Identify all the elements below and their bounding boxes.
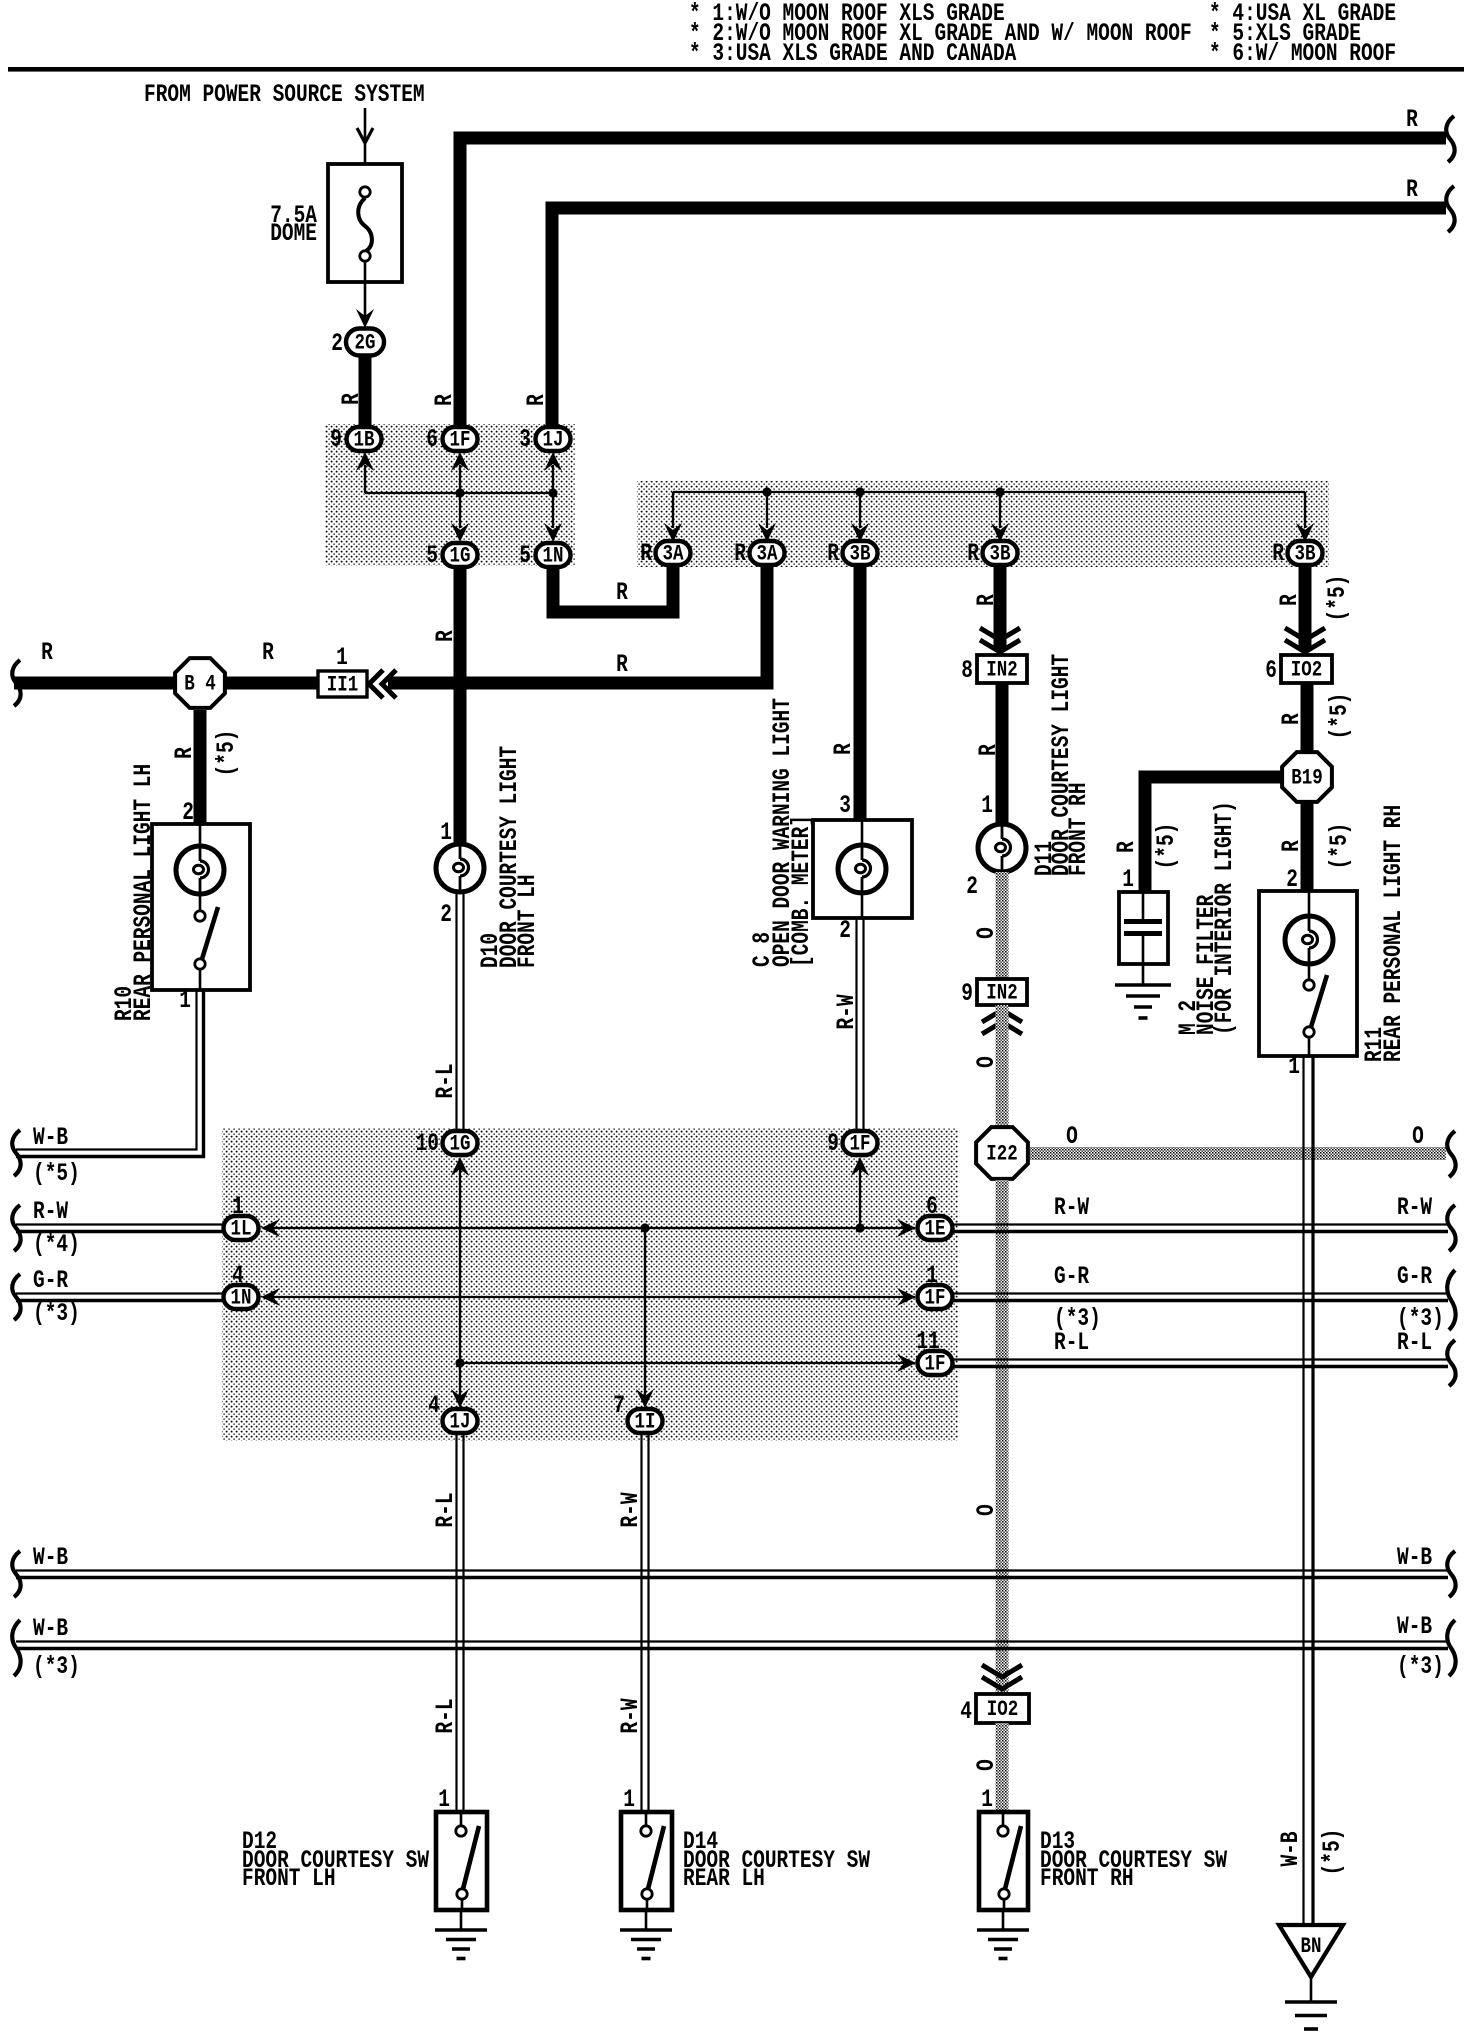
D13 pin 1 [981, 1785, 993, 1814]
svg-text:3B: 3B [1295, 542, 1316, 568]
wire R-L, D10 to 10(1G) [431, 892, 464, 1130]
connector 1J pin 4 [428, 1391, 477, 1435]
svg-text:R-L: R-L [431, 1492, 460, 1527]
label D12 DOOR COURTESY SW FRONT LH [242, 1827, 430, 1893]
svg-text:1: 1 [232, 1192, 244, 1221]
connector 1J pin 3 [519, 425, 570, 454]
svg-text:R: R [522, 394, 551, 406]
junction wire branch down to 1I [636, 1228, 654, 1408]
junction connector B19 [1282, 752, 1332, 802]
connector 1F pin 9 [827, 1129, 877, 1158]
svg-text:2G: 2G [355, 331, 376, 357]
fuse 7.5A DOME [328, 164, 402, 282]
svg-text:1: 1 [1288, 1052, 1300, 1081]
svg-text:REAR PERSONAL LIGHT RH: REAR PERSONAL LIGHT RH [1379, 805, 1408, 1062]
connector 1G pin 5 [426, 541, 477, 570]
svg-text:R: R [1277, 840, 1306, 852]
junction connector IN2 pin 9 [961, 979, 1027, 1008]
connector 1I pin 7 [613, 1391, 662, 1435]
svg-text:O: O [972, 1056, 1001, 1068]
wire W-B (*3) (lower ground bus) [16, 1612, 1448, 1681]
svg-text:1G: 1G [450, 1132, 471, 1158]
wire W-B (*5) from R10 pin 1 to left edge [16, 990, 204, 1188]
note legend column 2 [1209, 0, 1396, 68]
svg-text:R: R [1277, 713, 1306, 725]
svg-text:* 3:USA XLS GRADE AND CANADA: * 3:USA XLS GRADE AND CANADA [689, 39, 1017, 68]
svg-text:R: R [1406, 105, 1418, 134]
wire R, 2G to 1B [337, 355, 366, 426]
svg-text:R: R [1406, 175, 1418, 204]
svg-text:W-B: W-B [1397, 1543, 1432, 1572]
wire W-B (upper ground bus) [16, 1543, 1448, 1578]
ground below BN [1285, 1977, 1337, 2029]
connector 1N pin 5 [519, 541, 570, 570]
wire R-W, C8 to 9(1F) [832, 918, 864, 1130]
R10 pin 1 [179, 986, 191, 1015]
svg-text:(*5): (*5) [212, 730, 241, 777]
connector 3B (D11 feed) wire R [967, 539, 1017, 568]
wire R-L, 11(1F) to right edge [953, 1328, 1448, 1367]
junction connector I22 [976, 1127, 1028, 1179]
svg-text:FRONT RH: FRONT RH [1040, 1864, 1134, 1893]
connector 1E pin 6 [918, 1192, 953, 1242]
svg-text:R-W: R-W [1054, 1193, 1090, 1222]
svg-text:8: 8 [961, 656, 973, 685]
wire W-B (*5), R11 to BN [1276, 1056, 1347, 1925]
connector 1F pin 6 [426, 425, 477, 454]
door courtesy switch front RH D13 [979, 1812, 1028, 1910]
label R10 REAR PERSONAL LIGHT LH [110, 764, 158, 1021]
wire O, I22 to right edge [1030, 1122, 1446, 1154]
label D13 DOOR COURTESY SW FRONT RH [1040, 1827, 1228, 1893]
connector 1N pin 4 [224, 1261, 259, 1311]
wire R, 3B to C8 pin 3 [829, 566, 860, 820]
svg-text:1I: 1I [635, 1410, 656, 1436]
svg-text:(*4): (*4) [33, 1230, 80, 1259]
svg-text:2: 2 [966, 872, 978, 901]
svg-text:O: O [972, 1504, 1001, 1516]
wire O, D11 to IN2 [972, 872, 1002, 979]
svg-text:1: 1 [981, 791, 993, 820]
svg-text:G-R: G-R [1054, 1262, 1090, 1291]
svg-text:R-W: R-W [33, 1197, 69, 1226]
svg-text:3: 3 [839, 791, 851, 820]
svg-text:R: R [734, 539, 746, 568]
junction wire branch up to 9(1F) [851, 1157, 869, 1228]
svg-text:R-W: R-W [616, 1698, 645, 1734]
label R11 REAR PERSONAL LIGHT RH [1360, 805, 1408, 1062]
svg-text:* 6:W/ MOON ROOF: * 6:W/ MOON ROOF [1209, 39, 1396, 68]
ground below D14 [620, 1910, 672, 1959]
wire R, IN2 to D11 pin 1 [974, 683, 1003, 825]
svg-text:(*5): (*5) [1325, 823, 1354, 870]
note legend column 1 [689, 0, 1192, 68]
svg-text:R-L: R-L [1054, 1328, 1089, 1357]
junction wire 1N to 1F [261, 1288, 916, 1306]
rear personal light RH R11 [1259, 891, 1357, 1056]
arrow into IN2 (down) [980, 628, 1020, 652]
svg-text:O: O [972, 927, 1001, 939]
wire continuation brace (R-L right) [1447, 1340, 1455, 1386]
svg-text:W-B: W-B [1276, 1831, 1305, 1866]
svg-text:W-B: W-B [33, 1543, 68, 1572]
svg-text:R: R [41, 638, 53, 667]
svg-text:R: R [337, 393, 366, 405]
svg-text:(*5): (*5) [1152, 823, 1181, 870]
noise filter M2 (capacitor) [1119, 892, 1168, 985]
svg-text:R-W: R-W [1397, 1193, 1433, 1222]
svg-text:7: 7 [613, 1391, 625, 1420]
svg-text:1: 1 [438, 1785, 450, 1814]
svg-text:O: O [1412, 1122, 1424, 1151]
connector 3B (R11 feed) wire R [1272, 539, 1322, 568]
svg-text:R: R [1112, 841, 1141, 853]
junction connector IO2 pin 6 [1265, 655, 1332, 685]
fuse value label 7.5A DOME [270, 201, 317, 248]
D11 pin 2 [966, 872, 978, 901]
R11 pin 1 [1288, 1052, 1300, 1081]
svg-text:3A: 3A [757, 542, 779, 568]
wire continuation brace (W-B lower right) [1447, 1620, 1455, 1676]
svg-text:BN: BN [1301, 1934, 1322, 1960]
wire R (*5), B4 to R10 pin 2 [170, 710, 241, 827]
svg-text:R-L: R-L [431, 1698, 460, 1733]
wire R, 1N to 3A [553, 566, 673, 612]
rear personal light LH R10 [152, 824, 250, 990]
svg-text:3: 3 [519, 425, 531, 454]
svg-text:5: 5 [426, 541, 438, 570]
svg-text:W-B: W-B [1397, 1612, 1432, 1641]
arrow into IO2 right (down) [1285, 628, 1325, 652]
door courtesy switch rear LH D14 [621, 1812, 672, 1910]
svg-text:FRONT RH: FRONT RH [1064, 782, 1093, 876]
wire continuation brace (W-B upper left) [12, 1551, 20, 1597]
svg-text:(FOR INTERIOR LIGHT): (FOR INTERIOR LIGHT) [1210, 801, 1239, 1035]
svg-text:1: 1 [440, 818, 452, 847]
svg-text:1: 1 [926, 1261, 938, 1290]
svg-text:O: O [1066, 1122, 1078, 1151]
svg-text:1B: 1B [354, 428, 375, 454]
wire continuation brace (lower feed) [1446, 186, 1454, 232]
svg-text:3A: 3A [663, 542, 685, 568]
junction wire to 11(1F) [460, 1354, 916, 1372]
svg-text:1G: 1G [450, 544, 471, 570]
svg-text:DOME: DOME [270, 219, 317, 248]
svg-text:1J: 1J [450, 1410, 471, 1436]
svg-text:R: R [827, 539, 839, 568]
svg-text:R-L: R-L [1397, 1328, 1432, 1357]
svg-text:R: R [640, 539, 652, 568]
svg-text:6: 6 [926, 1192, 938, 1221]
wire R, 1G to D10 pin 1 [431, 567, 460, 847]
svg-text:W-B: W-B [33, 1614, 68, 1643]
svg-text:1: 1 [623, 1785, 635, 1814]
svg-text:1: 1 [981, 1785, 993, 1814]
svg-text:(*3): (*3) [33, 1652, 80, 1681]
wire R (*5), B19 to R11 pin 2 [1277, 801, 1354, 894]
svg-text:G-R: G-R [33, 1266, 69, 1295]
junction wire 1G branch down to 1J [451, 1157, 469, 1408]
ground connector BN [1279, 1925, 1343, 1977]
svg-text:R: R [431, 630, 460, 642]
svg-text:1F: 1F [450, 428, 471, 454]
svg-text:9: 9 [961, 979, 973, 1008]
svg-text:4: 4 [428, 1391, 440, 1420]
svg-text:10: 10 [416, 1129, 439, 1158]
svg-text:R: R [262, 638, 274, 667]
wire R (*5), B19 to M2 pin 1 [1112, 777, 1281, 894]
svg-text:B19: B19 [1291, 766, 1322, 792]
wire R-W, 1I to D14 pin 1 [616, 1434, 649, 1812]
ground below D12 [435, 1910, 487, 1959]
wire continuation brace (W-B *5 left) [12, 1130, 20, 1176]
svg-text:2: 2 [839, 916, 851, 945]
svg-text:4: 4 [960, 1697, 972, 1726]
wire O, I22 down to IO2 [972, 1180, 1002, 1694]
junction bus inside block1 [356, 452, 562, 542]
wire continuation brace (upper feed) [1446, 116, 1454, 162]
D12 pin 1 [438, 1785, 450, 1814]
wire continuation brace (G-R *3 left) [12, 1274, 20, 1320]
wire R, main run to 3A [388, 566, 767, 683]
arrow into IN2 (up) [982, 1010, 1022, 1034]
svg-text:R: R [1275, 594, 1304, 606]
connector 3A (right) wire R [734, 539, 784, 568]
svg-text:R: R [616, 650, 628, 679]
wire R-W (*4) from left edge to 1L [16, 1197, 223, 1259]
wire R into B4 [14, 638, 178, 683]
wire continuation brace (O right) [1447, 1131, 1455, 1177]
svg-text:IN2: IN2 [986, 658, 1017, 684]
svg-text:R: R [972, 594, 1001, 606]
svg-text:REAR LH: REAR LH [683, 1864, 765, 1893]
wire R (*5), IO2 to B19 [1277, 683, 1354, 753]
svg-text:2: 2 [331, 329, 343, 358]
ground below M2 [1115, 985, 1171, 1018]
svg-text:G-R: G-R [1397, 1262, 1433, 1291]
wire continuation brace (W-B upper right) [1447, 1551, 1455, 1597]
junction wire 1L to 1E [261, 1219, 916, 1237]
connector 1F pin 11 [916, 1327, 952, 1377]
svg-text:(*5): (*5) [33, 1159, 80, 1188]
D10 pin 2 [440, 900, 452, 929]
connector 2G pin 2 [331, 329, 384, 358]
connector 3A (left) wire R [640, 539, 690, 568]
connector 1G pin 10 [416, 1129, 478, 1158]
svg-text:6: 6 [426, 425, 438, 454]
svg-text:(*5): (*5) [1323, 575, 1352, 622]
svg-text:(*3): (*3) [33, 1299, 80, 1328]
svg-text:3B: 3B [990, 542, 1011, 568]
wire R to right edge (upper feed) [430, 105, 1446, 426]
open door warning light C8 [813, 820, 912, 918]
wire G-R (*3), 1F to right edge [953, 1262, 1448, 1333]
svg-text:2: 2 [440, 900, 452, 929]
svg-text:3B: 3B [850, 542, 871, 568]
C8 pin 2 [839, 916, 851, 945]
wire R-W, 1E to right edge [953, 1193, 1448, 1232]
arrow into IO2 (down) [982, 1665, 1022, 1689]
connector 1B pin 9 [330, 425, 381, 454]
svg-text:R: R [967, 539, 979, 568]
svg-text:R: R [170, 747, 199, 759]
shaded connector block (top right, 3A/3B) [637, 481, 1329, 567]
svg-text:REAR PERSONAL LIGHT LH: REAR PERSONAL LIGHT LH [129, 764, 158, 1021]
wire R to right edge (lower feed) [522, 175, 1446, 426]
wire continuation brace (left main wire) [12, 660, 20, 706]
svg-text:1N: 1N [543, 544, 564, 570]
svg-text:W-B: W-B [33, 1123, 68, 1152]
svg-text:9: 9 [330, 425, 342, 454]
label D11 DOOR COURTESY LIGHT FRONT RH [1030, 654, 1093, 876]
shaded connector block (middle, junction block) [222, 1128, 958, 1441]
junction connector II1 pin 1 [318, 643, 367, 698]
svg-text:O: O [972, 1759, 1001, 1771]
svg-text:1: 1 [1122, 865, 1134, 894]
svg-text:1: 1 [336, 643, 348, 672]
svg-text:R: R [430, 394, 459, 406]
wire fuse to connector 2G [356, 261, 374, 328]
wire R (*5), 3B to IO2 [1275, 566, 1352, 650]
wire continuation brace (R-W right) [1447, 1205, 1455, 1251]
arrow into II1 [369, 670, 396, 698]
wire O, IN2 to I22 [972, 1005, 1002, 1127]
door courtesy light front RH D11 [978, 824, 1026, 872]
D14 pin 1 [623, 1785, 635, 1814]
wire R, B4 to II1 [224, 638, 318, 683]
svg-text:B 4: B 4 [184, 672, 215, 698]
svg-text:R: R [1272, 539, 1284, 568]
svg-text:6: 6 [1265, 656, 1277, 685]
svg-text:FRONT LH: FRONT LH [242, 1864, 336, 1893]
svg-text:(*5): (*5) [1318, 1829, 1347, 1876]
svg-text:1F: 1F [850, 1132, 871, 1158]
svg-text:I22: I22 [986, 1142, 1017, 1168]
wire continuation brace (R-W *4 left) [12, 1205, 20, 1251]
junction connector IN2 pin 8 [961, 655, 1027, 685]
connector 3B (C8 feed) wire R [827, 539, 877, 568]
svg-text:R-W: R-W [832, 994, 861, 1030]
svg-text:IO2: IO2 [1291, 658, 1322, 684]
svg-text:[COMB. METER]: [COMB. METER] [787, 815, 816, 967]
svg-text:R-W: R-W [616, 1492, 645, 1528]
junction bus inside block3 [664, 487, 1314, 542]
svg-text:R: R [616, 578, 628, 607]
door courtesy switch front LH D12 [436, 1812, 487, 1910]
junction connector B4 [175, 658, 225, 708]
svg-text:R-L: R-L [431, 1063, 460, 1098]
wire G-R (*3) from left edge to 1N [16, 1266, 223, 1328]
label D10 DOOR COURTESY LIGHT FRONT LH [476, 746, 542, 968]
wire continuation brace (G-R right) [1447, 1270, 1455, 1330]
junction connector IO2 pin 4 [960, 1694, 1029, 1726]
label FROM POWER SOURCE SYSTEM [144, 80, 425, 109]
svg-text:4: 4 [232, 1261, 244, 1290]
svg-text:R: R [829, 743, 858, 755]
svg-text:FRONT LH: FRONT LH [513, 874, 542, 968]
wire R, 3B to IN2 [972, 566, 1001, 650]
svg-text:IN2: IN2 [986, 981, 1017, 1007]
svg-text:11: 11 [916, 1327, 939, 1356]
wire R-L, 1J to D12 pin 1 [431, 1434, 464, 1812]
label D14 DOOR COURTESY SW REAR LH [683, 1827, 871, 1893]
connector 1L pin 1 [224, 1192, 259, 1242]
connector 1F pin 1 [918, 1261, 953, 1311]
svg-text:9: 9 [827, 1129, 839, 1158]
wire O, IO2 to D13 pin 1 [972, 1723, 1002, 1812]
svg-text:1: 1 [179, 986, 191, 1015]
label M2 NOISE FILTER (FOR INTERIOR LIGHT) [1174, 801, 1239, 1035]
svg-text:II1: II1 [327, 673, 358, 699]
label C8 OPEN DOOR WARNING LIGHT [COMB. METER] [748, 698, 816, 967]
ground below D13 [977, 1910, 1029, 1959]
svg-text:5: 5 [519, 541, 531, 570]
header rule [8, 67, 1464, 72]
svg-text:(*5): (*5) [1325, 693, 1354, 740]
wire continuation brace (W-B lower left) [12, 1620, 20, 1676]
svg-text:IO2: IO2 [987, 1697, 1018, 1723]
svg-text:(*3): (*3) [1397, 1652, 1444, 1681]
door courtesy light front LH D10 [436, 844, 484, 892]
svg-text:FROM POWER SOURCE SYSTEM: FROM POWER SOURCE SYSTEM [144, 80, 425, 109]
shaded connector block (top left, 1B/1F/1J/1G/1N) [325, 424, 575, 566]
svg-text:R: R [974, 744, 1003, 756]
wire from power source into fuse [357, 108, 373, 192]
svg-text:1J: 1J [543, 428, 564, 454]
